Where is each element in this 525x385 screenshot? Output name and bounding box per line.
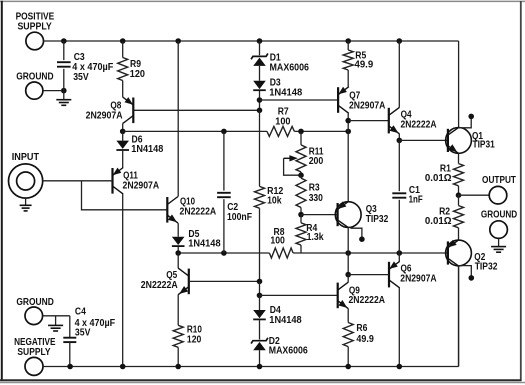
wire bias rail [123, 130, 349, 132]
svg-text:2N2907A: 2N2907A [86, 110, 123, 121]
junction Q7 collector Q4 base node [345, 118, 351, 124]
transistor Q6 [389, 261, 437, 288]
wire Q3 collector down [347, 228, 349, 275]
wire R12 to Q5 base node [259, 208, 261, 281]
junction rail at C3 [61, 38, 67, 44]
svg-text:100nF: 100nF [227, 212, 252, 223]
ground symbol input jack [20, 198, 32, 211]
junction bias rail at R11 [298, 129, 304, 135]
svg-text:SUPPLY: SUPPLY [17, 347, 50, 358]
resistor R4 [296, 215, 324, 253]
diode D5 [172, 229, 221, 253]
terminal GROUND right [481, 210, 517, 239]
transistor Q11 [113, 168, 160, 195]
frame top edge [0, 0, 525, 2]
wire reference string middle [259, 110, 261, 186]
wire input to Q11 base [43, 180, 113, 182]
case tab stub Q1 [459, 114, 475, 128]
junction rail at R10 [175, 364, 181, 370]
transistor Q8 [86, 97, 134, 124]
wire Q10 emitter to D5 [177, 223, 179, 237]
svg-text:120: 120 [130, 69, 146, 80]
svg-text:R6: R6 [356, 323, 367, 334]
wire positive supply rail [64, 41, 459, 128]
resistor R8 [269, 227, 293, 258]
resistor R9 [118, 41, 146, 81]
junction rail at Q6 collector [397, 364, 403, 370]
wire bias column to Q3 emitter [347, 131, 349, 201]
wire D1 to D3 [259, 66, 261, 81]
potentiometer R11 [284, 131, 324, 175]
svg-text:120: 120 [187, 335, 202, 346]
capacitor C4 [63, 307, 115, 367]
svg-text:49.9: 49.9 [356, 334, 374, 345]
svg-text:1.3k: 1.3k [307, 232, 324, 243]
svg-text:2N2222A: 2N2222A [141, 280, 178, 291]
wire Q5 base to reference string [189, 280, 260, 282]
wire Q4 collector to rail [398, 41, 400, 107]
wire reference to Q7 base [260, 99, 339, 101]
wire D5/C2/R8 node rail [178, 252, 448, 254]
transistor Q9 [338, 282, 385, 309]
svg-text:200: 200 [309, 156, 324, 167]
wire Q8 collector to bias node [122, 124, 124, 132]
svg-text:35V: 35V [75, 328, 91, 339]
wire Q7 collector to Q4 base [348, 120, 389, 122]
resistor R2 [425, 195, 464, 240]
diode D2 MAX6006 [251, 336, 308, 366]
svg-text:TIP32: TIP32 [475, 261, 498, 272]
wire Q9 base node to D4 [259, 295, 261, 310]
diode D6 [116, 131, 163, 167]
frame left edge [1, 1, 3, 381]
wire R5 to Q7 emitter [347, 70, 349, 87]
resistor R6 [343, 323, 374, 367]
svg-text:GROUND: GROUND [481, 210, 517, 221]
transistor Q3 [335, 201, 388, 227]
terminal GROUND bottom [16, 297, 54, 324]
junction D3 Q7 base node [257, 97, 263, 103]
junction D5 Q5 node [175, 250, 181, 256]
wire R9 to Q8 emitter [122, 81, 124, 98]
svg-text:2N2907A: 2N2907A [349, 101, 385, 112]
svg-text:2N2222A: 2N2222A [180, 207, 217, 218]
junction rail at R6 [345, 364, 351, 370]
wire Q2 collector to negative rail [458, 266, 460, 367]
wire Q4 emitter to node [398, 134, 400, 141]
junction C2 bottom [221, 250, 227, 256]
wire Q7 collector down [347, 113, 349, 131]
wire input branch to Q10 base [82, 181, 168, 210]
diode D4 [253, 305, 302, 340]
case tab stub Q3 [351, 228, 365, 242]
wire ground to C4 [43, 315, 70, 317]
wire negative supply rail [43, 266, 458, 367]
wire Q9 emitter to R6 [347, 309, 349, 323]
svg-text:100: 100 [275, 117, 291, 128]
junction output node [456, 192, 462, 198]
wire to Q9 base node [259, 281, 261, 295]
frame right edge [520, 1, 522, 381]
junction R3 R4 Q3 base node [298, 212, 304, 218]
junction Q9 base node [257, 293, 263, 299]
junction Q8 base node [257, 108, 263, 114]
junction bias rail at Q8/D6 [120, 129, 126, 135]
junction bias rail at C2 [221, 129, 227, 135]
junction R11 wiper R3 top [298, 172, 304, 178]
wire Q9 base [260, 294, 338, 296]
wire Q5 emitter to R10 [177, 295, 179, 326]
svg-text:SUPPLY: SUPPLY [17, 22, 52, 33]
wire to Q3 base [301, 214, 338, 216]
resistor R1 [425, 164, 464, 196]
svg-text:MAX6006: MAX6006 [269, 345, 308, 356]
junction C3 bottom node [61, 88, 67, 94]
capacitor C2 [217, 131, 252, 253]
svg-text:GROUND: GROUND [16, 297, 54, 308]
svg-text:1N4148: 1N4148 [269, 87, 302, 98]
svg-text:35V: 35V [73, 72, 89, 83]
svg-text:TIP31: TIP31 [473, 140, 496, 151]
ground symbol at C4 [48, 316, 63, 331]
wire output node to terminal [459, 194, 490, 196]
svg-text:1nF: 1nF [409, 195, 423, 206]
junction bias rail at Q7 collector [345, 129, 351, 135]
svg-text:2N2907A: 2N2907A [123, 180, 160, 191]
svg-text:C4: C4 [75, 307, 86, 318]
wire Q11 collector down to negative rail [122, 194, 124, 366]
transistor Q1 [446, 127, 496, 153]
junction rail at Q11 collector [120, 364, 126, 370]
transistor Q7 [338, 87, 385, 114]
resistor R12 [255, 186, 284, 208]
case tab stub Q2 [459, 266, 475, 281]
wire Q1 emitter to R1 [458, 153, 460, 163]
capacitor C3 [57, 41, 113, 91]
ground symbol below C3 [56, 91, 71, 106]
junction rail at C4 [67, 364, 73, 370]
frame bottom edge [0, 380, 525, 382]
wire Q4 emitter to Q1 base [399, 139, 448, 141]
wire Q6 collector to negative rail [398, 288, 400, 367]
wire Q6 base to Q9 collector [348, 274, 389, 276]
wire Q10 collector to positive rail [177, 41, 179, 197]
junction rail at D2 [257, 364, 263, 370]
terminal OUTPUT [482, 175, 516, 204]
junction rail at Q4 collector [397, 38, 403, 44]
diode D1 MAX6006 [251, 52, 309, 73]
svg-text:10k: 10k [267, 196, 282, 207]
svg-text:100: 100 [270, 235, 285, 246]
svg-text:1N4148: 1N4148 [131, 144, 163, 155]
terminal NEGATIVE SUPPLY [14, 337, 56, 376]
junction Q9 collector Q6 base node [345, 272, 351, 278]
svg-text:2N2907A: 2N2907A [400, 273, 436, 284]
svg-text:POSITIVE: POSITIVE [16, 11, 55, 22]
wire Q9 collector up [347, 275, 349, 283]
junction rail at D1 [257, 38, 263, 44]
wire positive terminal to rail [44, 40, 64, 42]
svg-text:0.01Ω: 0.01Ω [425, 216, 452, 227]
svg-text:2N2222A: 2N2222A [401, 120, 437, 131]
svg-text:INPUT: INPUT [12, 152, 39, 163]
wire Q6 emitter up to node [398, 253, 400, 261]
wire ground terminal to C3 [43, 90, 64, 92]
svg-text:GROUND: GROUND [16, 71, 53, 82]
resistor R5 [343, 41, 373, 71]
svg-text:TIP32: TIP32 [366, 214, 389, 225]
wire Q5 collector to node [177, 253, 179, 268]
transistor Q4 [389, 107, 437, 134]
capacitor C1 [392, 140, 422, 253]
terminal GROUND top [16, 71, 53, 99]
junction rail at R5 [345, 38, 351, 44]
ground symbol right [491, 238, 506, 252]
svg-text:49.9: 49.9 [355, 60, 374, 71]
junction Q3 collector node [345, 250, 351, 256]
junction rail at Q10 collector [175, 38, 181, 44]
svg-text:330: 330 [309, 193, 324, 204]
resistor R10 [173, 325, 202, 367]
wire Q8 base to reference string [133, 109, 259, 111]
resistor R7 [267, 107, 294, 137]
diode D3 [253, 78, 302, 111]
resistor R3 [296, 175, 323, 214]
transistor Q5 [141, 268, 189, 295]
junction Q4 emitter Q1 base node [397, 138, 403, 144]
terminal INPUT jack [9, 152, 43, 198]
transistor Q10 [167, 197, 216, 224]
junction Q6 emitter node [397, 250, 403, 256]
svg-text:1N4148: 1N4148 [188, 239, 221, 250]
svg-text:MAX6006: MAX6006 [270, 62, 310, 73]
transistor Q2 [446, 240, 498, 273]
wire positive rail to D1 [259, 41, 261, 55]
junction rail at R9 [120, 38, 126, 44]
junction Q5 base node [257, 279, 263, 285]
terminal POSITIVE SUPPLY [16, 11, 55, 50]
svg-text:OUTPUT: OUTPUT [482, 175, 516, 186]
svg-text:2N2222A: 2N2222A [349, 295, 386, 306]
svg-text:1N4148: 1N4148 [269, 315, 302, 326]
svg-text:0.01Ω: 0.01Ω [425, 173, 452, 184]
